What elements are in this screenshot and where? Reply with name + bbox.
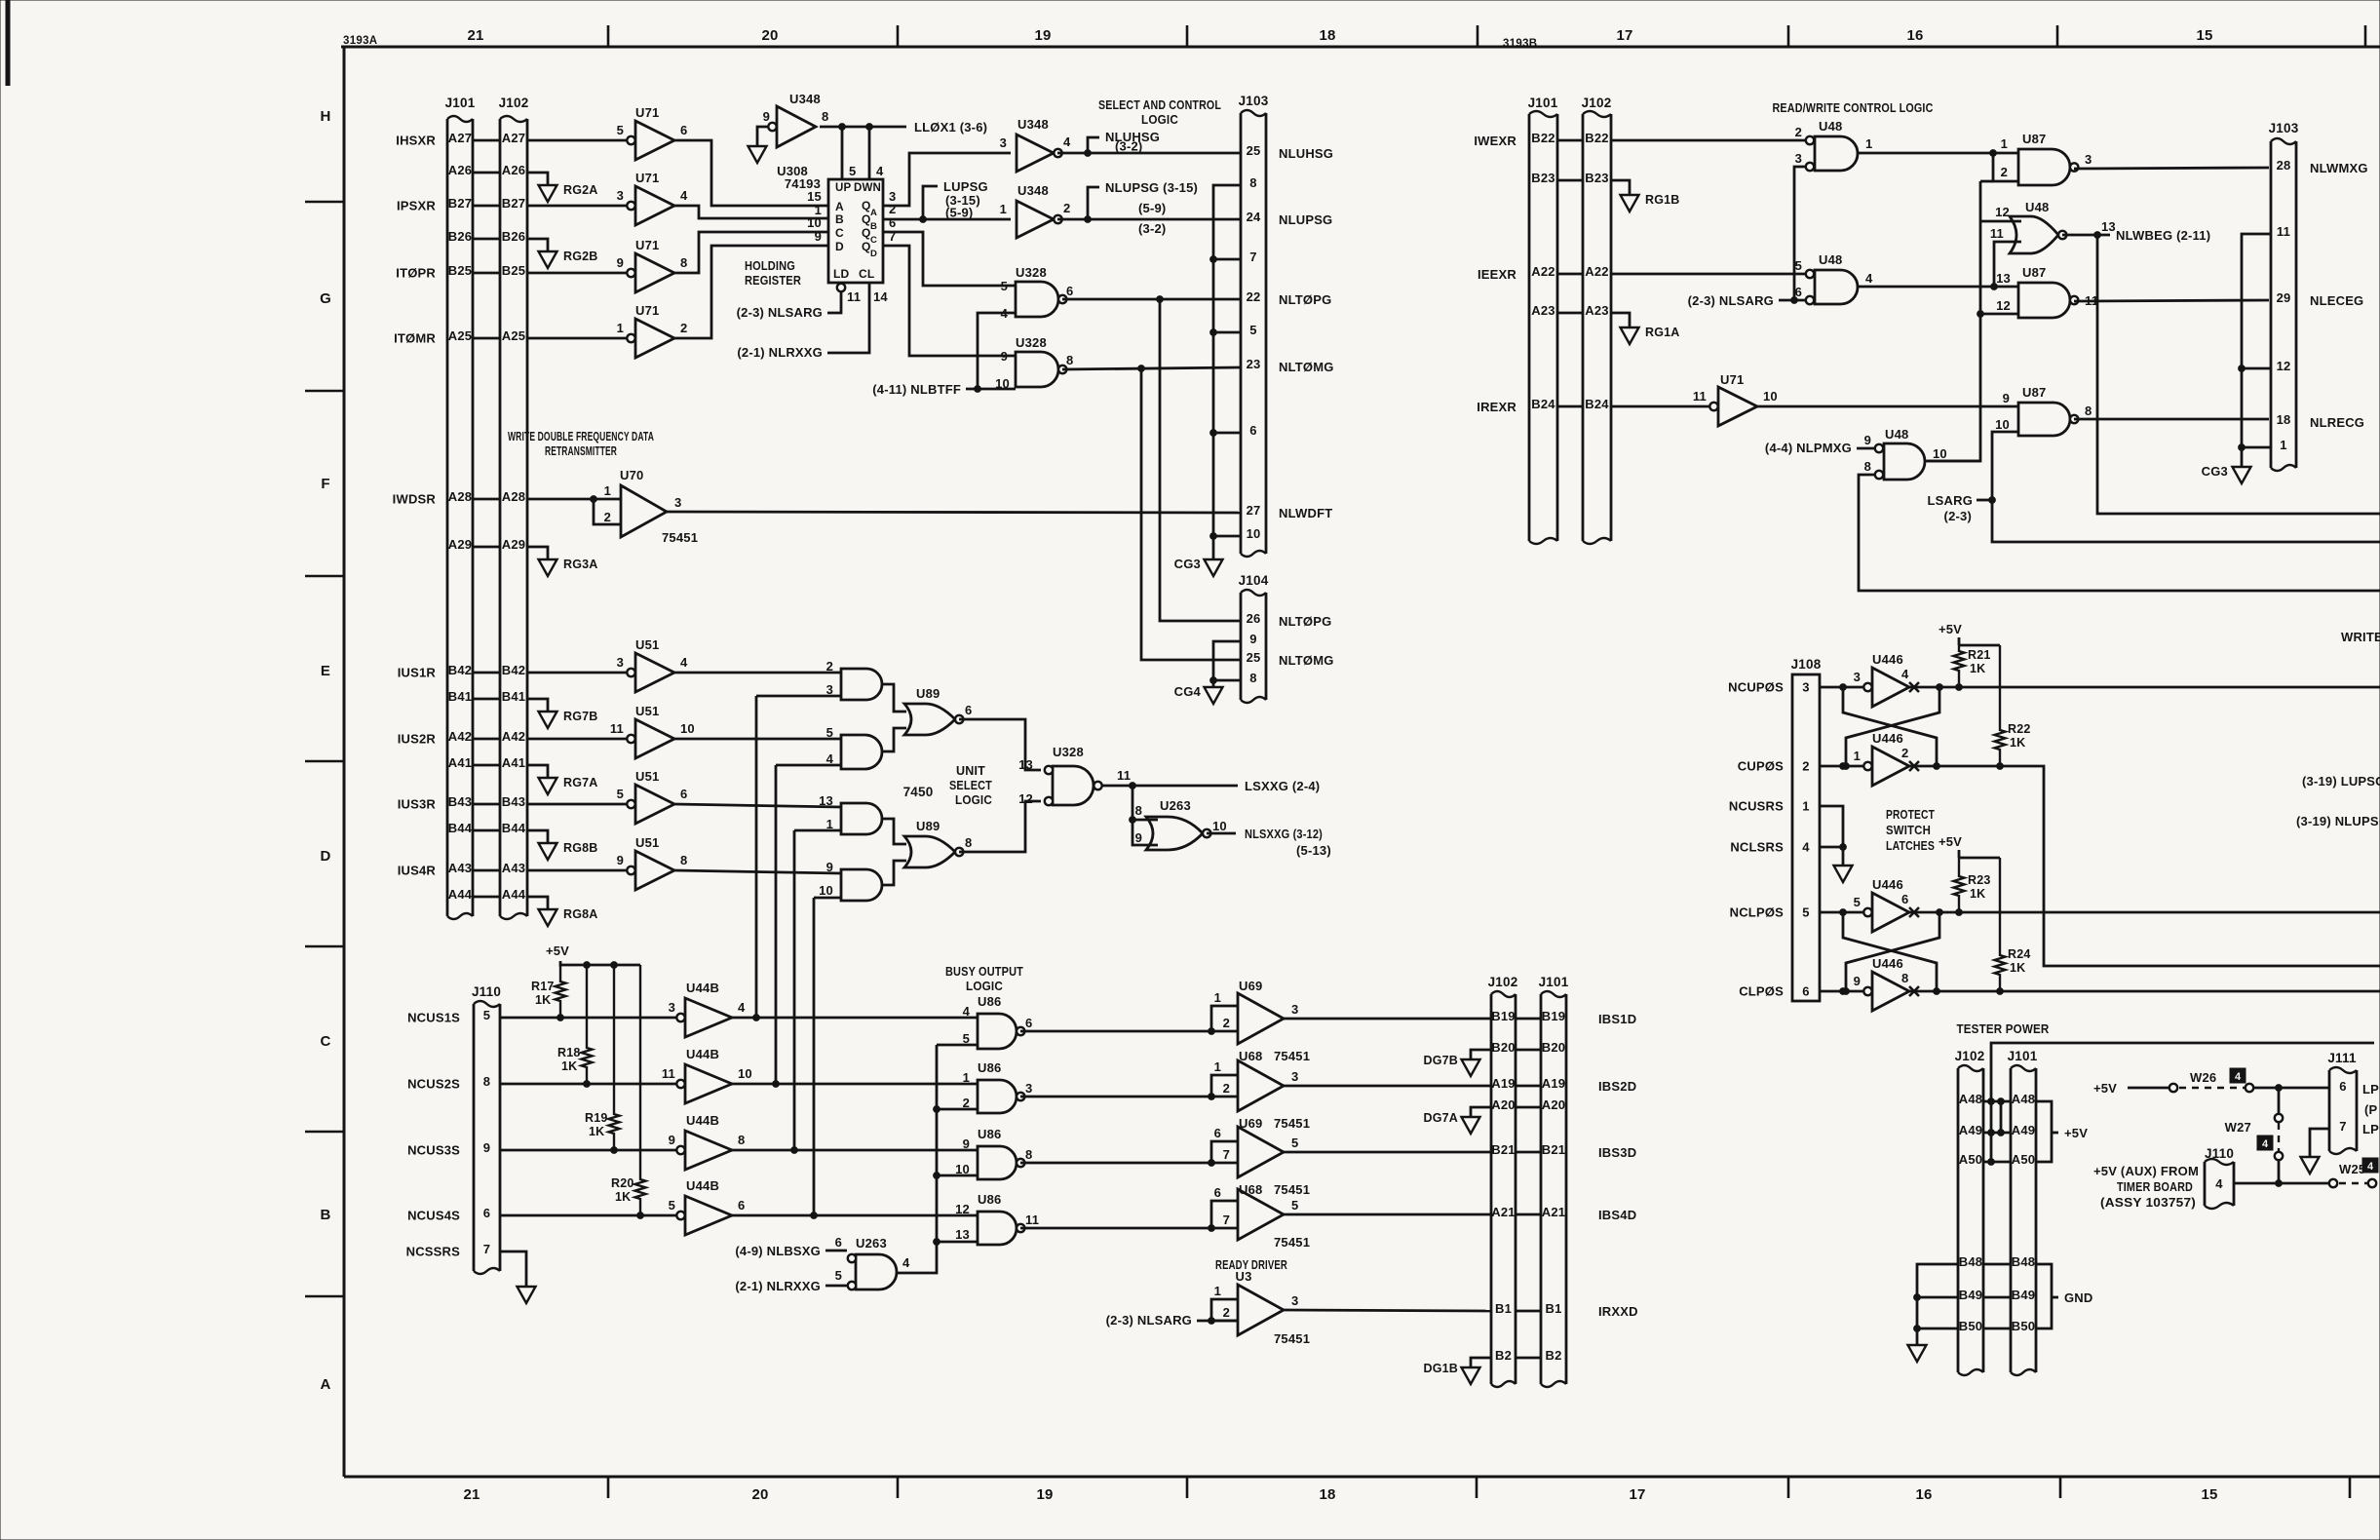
label +5V (busy pullups): [546, 943, 569, 958]
svg-text:18: 18: [1319, 1486, 1335, 1503]
wire NLUHSG to J103 pin 25: [1057, 152, 1241, 155]
wire NLT0PG to J103 pin 22: [1062, 298, 1241, 301]
svg-text:19: 19: [1036, 1486, 1053, 1503]
svg-text:NLWMXG: NLWMXG: [2310, 161, 2368, 175]
svg-text:4: 4: [963, 1004, 971, 1019]
svg-text:U51: U51: [635, 704, 659, 718]
wire A48-A49 link: [1998, 1098, 2005, 1136]
svg-text:A23: A23: [1531, 303, 1555, 318]
wire NLT0MG to J103 pin 23: [1062, 367, 1241, 369]
svg-text:NCUS1S: NCUS1S: [407, 1011, 460, 1025]
inverter U51 c (IUS3R): [527, 769, 687, 824]
svg-text:RG2A: RG2A: [563, 183, 598, 197]
wire NLT0PG to J104 pin 26: [1160, 299, 1241, 621]
svg-text:4: 4: [1802, 840, 1810, 855]
svg-text:20: 20: [761, 27, 778, 44]
wire U71b out to U308 B: [674, 206, 828, 218]
wire write-enable bus: [1927, 181, 1993, 461]
wire U3 out to J102 B1: [1284, 1310, 1491, 1311]
svg-text:8: 8: [680, 255, 687, 270]
svg-text:6: 6: [1066, 284, 1073, 298]
wire U446a out line NCUP0S: [1909, 686, 2380, 689]
svg-text:RG8A: RG8A: [563, 907, 598, 921]
svg-text:5: 5: [1291, 1136, 1298, 1150]
svg-text:15: 15: [2201, 1486, 2217, 1503]
svg-text:12: 12: [1996, 298, 2011, 313]
wire W26 to J111 pin6: [2254, 1085, 2329, 1092]
ground bus CG3: [1210, 185, 1241, 559]
svg-text:DG7B: DG7B: [1423, 1054, 1458, 1067]
svg-text:11: 11: [1990, 226, 2004, 241]
svg-text:8: 8: [1135, 803, 1142, 818]
svg-text:J110: J110: [2205, 1146, 2234, 1161]
svg-text:A28: A28: [448, 489, 472, 504]
svg-text:8: 8: [2085, 404, 2092, 418]
svg-text:11: 11: [1693, 389, 1707, 404]
svg-text:U48: U48: [1819, 119, 1842, 134]
svg-text:2: 2: [1901, 746, 1908, 760]
svg-text:+5V: +5V: [2093, 1081, 2117, 1096]
svg-text:U446: U446: [1872, 652, 1903, 667]
wire U51c to AND3 in13: [674, 804, 841, 807]
wire +5V to W26: [2128, 1087, 2169, 1090]
svg-text:READ/WRITE CONTROL LOGIC: READ/WRITE CONTROL LOGIC: [1773, 100, 1934, 115]
svg-text:R23: R23: [1968, 873, 1991, 887]
svg-text:1K: 1K: [1970, 662, 1985, 675]
svg-text:W27: W27: [2225, 1120, 2251, 1135]
svg-text:C: C: [835, 226, 844, 240]
svg-text:6: 6: [889, 215, 896, 230]
nand U328 b: [995, 335, 1073, 391]
svg-text:NCLSRS: NCLSRS: [1730, 840, 1784, 855]
svg-text:J102: J102: [499, 96, 529, 110]
svg-text:10: 10: [807, 215, 822, 230]
svg-text:A50: A50: [2012, 1152, 2035, 1167]
junction LSXXG: [1130, 783, 1136, 789]
ground CG3: [1174, 557, 1223, 576]
svg-text:U348: U348: [789, 92, 821, 106]
svg-text:IRXXD: IRXXD: [1598, 1304, 1638, 1319]
svg-text:20: 20: [751, 1486, 768, 1503]
bottom column numbers: [463, 1486, 2217, 1503]
svg-text:J102: J102: [1955, 1049, 1985, 1063]
nand U86 a: [963, 994, 1033, 1049]
svg-text:12: 12: [955, 1202, 970, 1216]
svg-text:75451: 75451: [662, 530, 698, 545]
svg-text:10: 10: [819, 883, 833, 898]
svg-text:75451: 75451: [1274, 1235, 1310, 1250]
svg-text:11: 11: [662, 1066, 675, 1081]
nand U86 d: [955, 1192, 1039, 1245]
svg-text:NCSSRS: NCSSRS: [406, 1245, 461, 1259]
svg-text:4: 4: [738, 1000, 746, 1015]
wire U86c out to U69b: [1020, 1162, 1211, 1165]
svg-text:UP: UP: [835, 182, 852, 194]
resistor-ground RG2A on A26: [527, 173, 598, 202]
svg-text:3: 3: [1291, 1293, 1298, 1308]
svg-text:A: A: [870, 208, 877, 218]
ground CG4: [1174, 684, 1223, 704]
svg-text:5: 5: [826, 725, 833, 740]
svg-text:LLØX1 (3-6): LLØX1 (3-6): [914, 120, 987, 135]
svg-text:13: 13: [1018, 757, 1033, 772]
top column numbers: [467, 27, 2212, 44]
svg-text:8: 8: [1864, 459, 1871, 474]
bus wire U44Bc out to AND3 in1: [791, 830, 798, 1153]
input signal labels: [393, 134, 437, 878]
svg-text:CG4: CG4: [1174, 684, 1202, 699]
svg-text:B22: B22: [1531, 131, 1555, 145]
wire AND3 in1 from bus: [794, 829, 841, 832]
svg-text:A26: A26: [448, 163, 472, 177]
svg-text:8: 8: [680, 853, 687, 867]
svg-text:1: 1: [617, 321, 624, 335]
svg-text:H: H: [320, 108, 330, 125]
svg-text:9: 9: [1249, 632, 1256, 646]
wire U86c in10 from bus: [937, 1174, 978, 1177]
svg-text:NLUHSG: NLUHSG: [1279, 146, 1333, 161]
junction U87a in1: [1990, 150, 1997, 157]
svg-text:RETRANSMITTER: RETRANSMITTER: [545, 443, 617, 458]
nand U87 c: [1996, 265, 2098, 318]
svg-text:5: 5: [1249, 323, 1256, 337]
label LSARG: [1928, 493, 1974, 523]
bus wire U44Bb out to AND2 in4: [773, 765, 780, 1087]
svg-text:3193B: 3193B: [1503, 38, 1537, 50]
svg-text:A44: A44: [502, 887, 526, 902]
svg-text:RG2B: RG2B: [563, 250, 598, 263]
J103b signal labels: [2310, 161, 2368, 430]
wire U44Ba to U86a in4: [732, 1017, 978, 1020]
svg-text:A25: A25: [448, 328, 472, 343]
svg-text:5: 5: [963, 1031, 970, 1046]
inverter U44B b (NCUS2S): [500, 1047, 752, 1103]
svg-text:TIMER BOARD: TIMER BOARD: [2117, 1179, 2193, 1194]
svg-text:12: 12: [2277, 359, 2291, 373]
svg-text:BUSY OUTPUT: BUSY OUTPUT: [945, 964, 1023, 979]
wire +5V AUX line: [2234, 1180, 2329, 1187]
svg-text:U68: U68: [1239, 1049, 1262, 1063]
svg-text:ITØMR: ITØMR: [394, 331, 436, 346]
svg-text:10: 10: [1212, 819, 1227, 833]
wire NLWDFT long line: [667, 512, 1241, 513]
svg-text:A20: A20: [1542, 1097, 1565, 1112]
connector J111: [2327, 1051, 2357, 1154]
svg-text:R20: R20: [611, 1176, 634, 1190]
svg-text:B26: B26: [502, 229, 525, 244]
svg-text:+5V (AUX) FROM: +5V (AUX) FROM: [2093, 1164, 2199, 1178]
svg-text:LATCHES: LATCHES: [1886, 838, 1935, 853]
connector J102 (right sheet): [1582, 96, 1612, 544]
wire U48d in11: [1994, 242, 2021, 287]
svg-text:1: 1: [1802, 799, 1809, 814]
svg-text:U328: U328: [1053, 745, 1084, 759]
svg-text:1K: 1K: [1970, 887, 1985, 901]
ground RG1B: [1611, 180, 1680, 212]
svg-text:8: 8: [1249, 671, 1256, 685]
driver U69 b 75451: [1209, 1116, 1311, 1177]
svg-text:11: 11: [1025, 1213, 1039, 1227]
svg-text:11: 11: [610, 721, 624, 736]
resistor R22 1K: [1995, 645, 2031, 766]
svg-text:26: 26: [1247, 611, 1261, 626]
svg-text:B24: B24: [1585, 397, 1609, 411]
svg-text:CG3: CG3: [2202, 464, 2228, 479]
svg-text:(2-3): (2-3): [1944, 509, 1972, 523]
svg-text:9: 9: [617, 255, 624, 270]
label NLRXXG (busy): [735, 1279, 821, 1293]
junction to UP: [839, 124, 846, 179]
svg-text:9: 9: [826, 860, 833, 874]
connector J101 (tester power): [2008, 1049, 2038, 1375]
svg-text:SWITCH: SWITCH: [1886, 823, 1931, 837]
driver U69 a 75451: [1209, 979, 1299, 1044]
svg-text:11: 11: [1117, 768, 1131, 783]
or gate U48 d: [1990, 200, 2116, 253]
svg-text:U446: U446: [1872, 731, 1903, 746]
svg-text:A21: A21: [1542, 1205, 1565, 1219]
svg-text:GND: GND: [2064, 1290, 2093, 1305]
label NLSARG (ready): [1106, 1313, 1192, 1328]
svg-text:U89: U89: [916, 686, 940, 701]
svg-text:WRITE P: WRITE P: [2341, 630, 2380, 644]
wire IWDSR to U70: [527, 496, 621, 503]
and gate U89/7450 A1: [826, 659, 882, 700]
svg-text:1K: 1K: [615, 1190, 631, 1204]
svg-text:A41: A41: [448, 755, 472, 770]
svg-text:6: 6: [2339, 1079, 2346, 1094]
junction to DWN: [866, 124, 873, 179]
svg-text:4: 4: [1865, 271, 1873, 286]
svg-text:RG1A: RG1A: [1645, 326, 1680, 339]
svg-text:A: A: [835, 200, 844, 213]
svg-text:B1: B1: [1545, 1301, 1561, 1316]
svg-text:1: 1: [604, 483, 611, 498]
label NLSARG (right): [1688, 293, 1774, 308]
svg-text:12: 12: [1995, 205, 2010, 219]
svg-text:10: 10: [1995, 417, 2010, 432]
svg-text:IWEXR: IWEXR: [1474, 134, 1516, 148]
svg-text:6: 6: [1249, 423, 1256, 438]
svg-text:6: 6: [1025, 1016, 1032, 1030]
net stub LUPSG: [920, 179, 988, 222]
nand U48 b: [1795, 252, 1873, 304]
wire NCUP0S to U446a: [1820, 684, 1868, 691]
wire U68a out to J102 A19: [1284, 1085, 1491, 1088]
svg-text:WRITE DOUBLE FREQUENCY DATA: WRITE DOUBLE FREQUENCY DATA: [508, 429, 654, 443]
svg-text:(5-9): (5-9): [945, 206, 973, 220]
wire LSXXG: [1102, 779, 1320, 793]
label LL0X1: [914, 120, 987, 135]
nand U86 b: [963, 1060, 1033, 1113]
svg-text:UNIT: UNIT: [956, 763, 985, 778]
svg-text:RG7B: RG7B: [563, 710, 598, 723]
svg-text:U71: U71: [635, 171, 659, 185]
svg-text:U51: U51: [635, 769, 659, 784]
svg-text:7: 7: [1249, 250, 1256, 264]
wire NCUSRS/NCLSRS to ground: [1820, 806, 1853, 882]
svg-text:3: 3: [669, 1000, 675, 1015]
svg-text:NLTØMG: NLTØMG: [1279, 360, 1334, 374]
svg-text:4: 4: [2235, 1071, 2242, 1083]
svg-text:1: 1: [1854, 749, 1861, 763]
svg-text:(2-3) NLSARG: (2-3) NLSARG: [1688, 293, 1774, 308]
svg-text:1: 1: [963, 1070, 970, 1085]
svg-text:J110: J110: [472, 984, 501, 999]
svg-text:IUS3R: IUS3R: [398, 797, 437, 812]
svg-text:U328: U328: [1016, 335, 1047, 350]
nand U263 b: [835, 1235, 910, 1290]
svg-text:6: 6: [738, 1198, 745, 1213]
wire U89b out to U328c in12: [959, 801, 1041, 852]
wire U71a out to U308 A: [674, 140, 828, 206]
svg-text:B27: B27: [448, 196, 472, 211]
svg-text:U48: U48: [2025, 200, 2049, 214]
svg-text:(P: (P: [2364, 1102, 2378, 1117]
wire U87c in12: [1980, 313, 2018, 316]
svg-text:3: 3: [1802, 680, 1809, 695]
svg-text:ITØPR: ITØPR: [396, 266, 436, 281]
svg-text:5: 5: [669, 1198, 675, 1213]
svg-text:NCUS4S: NCUS4S: [407, 1209, 460, 1223]
svg-text:U348: U348: [1017, 117, 1049, 132]
inverter U71 b (IPSXR): [527, 171, 688, 225]
wire U89a out to U328c in13: [959, 719, 1041, 770]
svg-text:B: B: [870, 221, 877, 232]
ground bus CG3 (right): [2239, 234, 2271, 467]
svg-text:9: 9: [1135, 830, 1142, 845]
wire AND4 out to U89b: [882, 861, 906, 885]
label READ/WRITE CONTROL LOGIC: [1773, 100, 1934, 115]
svg-text:U87: U87: [2022, 132, 2046, 146]
svg-text:1: 1: [1214, 1059, 1221, 1074]
svg-text:NLUPSG: NLUPSG: [1279, 212, 1332, 227]
svg-text:1: 1: [826, 817, 833, 831]
svg-text:14: 14: [873, 289, 888, 304]
svg-text:A20: A20: [1491, 1097, 1515, 1112]
wire U86b in2 from bus: [937, 1108, 978, 1111]
svg-text:B41: B41: [448, 689, 472, 704]
wire U446b out line CUP0S/LUPSG: [1909, 763, 2380, 966]
jumper W26: [2169, 1070, 2253, 1092]
svg-text:A50: A50: [1959, 1152, 1982, 1167]
left border ticks: [305, 202, 344, 1296]
svg-text:U71: U71: [635, 105, 659, 120]
J104 signal labels: [1279, 614, 1334, 668]
svg-text:NCLPØS: NCLPØS: [1730, 905, 1785, 920]
wire NLRECG to J103 pin 18: [2074, 418, 2269, 421]
bracket +5V: [2036, 1101, 2088, 1162]
svg-text:5: 5: [1795, 258, 1802, 273]
left row letters: [320, 108, 331, 1393]
svg-text:W25: W25: [2339, 1162, 2365, 1176]
svg-text:1K: 1K: [589, 1125, 604, 1138]
wire LL0X1 line: [820, 126, 906, 129]
wire U44Bc to U86c in9: [732, 1149, 978, 1152]
svg-text:U71: U71: [635, 303, 659, 318]
svg-text:3: 3: [1291, 1002, 1298, 1017]
wire AND2 in4 from bus: [776, 764, 841, 767]
svg-text:2: 2: [1063, 201, 1070, 215]
label TESTER POWER: [1957, 1021, 2050, 1036]
connector J102 (tester power): [1955, 1049, 1985, 1375]
junction NLT0PG: [1157, 296, 1164, 303]
svg-text:6: 6: [680, 787, 687, 801]
svg-text:U71: U71: [635, 238, 659, 252]
svg-text:2: 2: [1802, 759, 1809, 774]
svg-text:A48: A48: [2012, 1092, 2035, 1106]
resistor-ground RG3A on A29: [527, 547, 598, 576]
wire +5V to pullups lower: [1959, 850, 2000, 858]
svg-text:R24: R24: [2008, 947, 2031, 961]
svg-text:25: 25: [1247, 143, 1261, 158]
svg-text:NLUPSG (3-15): NLUPSG (3-15): [1105, 180, 1198, 195]
svg-text:18: 18: [1319, 27, 1335, 44]
wire U48a out to U87a: [1858, 152, 2018, 155]
nand U86 c: [955, 1127, 1032, 1179]
svg-text:J101: J101: [1539, 975, 1569, 989]
svg-text:HOLDING: HOLDING: [745, 258, 795, 273]
resistor-ground RG7A on A41: [527, 765, 598, 794]
svg-text:1K: 1K: [535, 993, 551, 1007]
wire U86d out to U68b: [1020, 1227, 1211, 1230]
svg-text:13: 13: [819, 793, 833, 808]
svg-text:A42: A42: [502, 729, 525, 744]
svg-text:3: 3: [826, 682, 833, 697]
resistor-ground RG8A on A44: [527, 897, 598, 926]
label (3-19) LUPSG: [2302, 774, 2380, 789]
label NLBTFF: [872, 382, 961, 397]
svg-text:11: 11: [847, 289, 861, 304]
svg-text:B24: B24: [1531, 397, 1555, 411]
svg-text:B20: B20: [1542, 1040, 1565, 1055]
svg-text:1: 1: [1865, 136, 1872, 151]
svg-text:7: 7: [483, 1242, 490, 1256]
svg-text:10: 10: [680, 721, 695, 736]
svg-text:B50: B50: [1959, 1319, 1982, 1333]
svg-text:10: 10: [1247, 526, 1261, 541]
inverter U44B d (NCUS4S): [500, 1178, 745, 1235]
wire U51b to AND2 in5: [674, 738, 841, 741]
label 7450 UNIT SELECT LOGIC: [903, 763, 993, 807]
svg-text:(4-4) NLPMXG: (4-4) NLPMXG: [1765, 441, 1852, 455]
svg-text:6: 6: [835, 1235, 842, 1250]
svg-text:CL: CL: [859, 267, 874, 281]
svg-text:NLRECG: NLRECG: [2310, 415, 2364, 430]
svg-text:13: 13: [1996, 271, 2011, 286]
svg-text:4: 4: [680, 655, 688, 670]
svg-text:6: 6: [1802, 984, 1809, 999]
svg-text:B22: B22: [1585, 131, 1608, 145]
svg-text:RG8B: RG8B: [563, 841, 598, 855]
svg-text:U44B: U44B: [686, 1113, 719, 1128]
svg-text:11: 11: [2277, 224, 2290, 239]
label READY DRIVER: [1215, 1257, 1287, 1284]
connector J101 (busy outputs): [1539, 975, 1569, 1387]
svg-text:4: 4: [2215, 1176, 2223, 1191]
svg-text:R21: R21: [1968, 648, 1991, 662]
svg-text:19: 19: [1034, 27, 1051, 44]
svg-text:5: 5: [483, 1008, 490, 1022]
bottom border ticks: [608, 1477, 2350, 1498]
wire U48d in12: [1980, 220, 2021, 223]
svg-text:2: 2: [604, 510, 611, 524]
svg-text:10: 10: [1933, 446, 1947, 461]
svg-text:2: 2: [963, 1096, 970, 1110]
svg-text:7: 7: [1223, 1213, 1230, 1227]
buffer U348 c: [1000, 183, 1071, 238]
svg-text:A41: A41: [502, 755, 525, 770]
